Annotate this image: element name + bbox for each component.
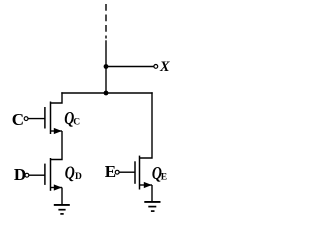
gate bar QC	[44, 107, 46, 129]
svg-text:C: C	[73, 118, 80, 128]
source arrow QE	[144, 182, 152, 188]
svg-text:E: E	[161, 173, 167, 183]
wire: solid trunk from dashed stub down to branch junction	[105, 40, 107, 93]
svg-text:C: C	[12, 110, 24, 129]
gate bar QD	[44, 164, 46, 185]
ground below QD	[54, 205, 70, 214]
wire: horizontal drain bus connecting both branches	[61, 92, 152, 94]
source stub QE with arrow	[140, 184, 153, 186]
wire: gate lead of QC	[28, 118, 45, 120]
input terminal circle E	[115, 170, 119, 174]
channel bar QE	[139, 156, 141, 190]
wire: QD source down to ground	[61, 188, 63, 205]
wire: QC source down to QD drain	[51, 131, 63, 160]
source arrow QC	[54, 128, 62, 134]
junction dot: drain bus junction	[104, 91, 109, 96]
transistor QD	[45, 158, 62, 191]
label QD	[65, 163, 82, 183]
ground below QE	[144, 202, 160, 211]
wire: dashed supply stub to load above	[105, 4, 107, 39]
svg-text:E: E	[105, 162, 116, 181]
wire: QE source down to ground	[151, 185, 153, 202]
svg-text:X: X	[159, 59, 170, 75]
wire: right branch drop from bus to QE drain	[140, 92, 153, 158]
wire: left branch drop from bus to QC drain	[51, 92, 63, 103]
input terminal circle C	[24, 117, 28, 121]
source stub QD with arrow	[51, 187, 63, 189]
input terminal circle D	[25, 173, 29, 177]
source stub QC with arrow	[51, 130, 63, 132]
svg-text:Q: Q	[65, 163, 75, 183]
source arrow QD	[54, 184, 62, 190]
node X junction dot on trunk	[104, 64, 109, 69]
node X open terminal circle	[154, 65, 158, 69]
svg-text:D: D	[75, 172, 82, 182]
channel bar QC	[50, 102, 52, 135]
wire: output lead from trunk to terminal X	[106, 66, 154, 68]
gate bar QE	[134, 161, 136, 184]
label QE	[152, 163, 167, 183]
transistor QC	[45, 102, 62, 135]
wire: gate lead of QE	[119, 171, 135, 173]
channel bar QD	[50, 158, 52, 191]
transistor QE	[135, 156, 152, 190]
wire: gate lead of QD	[29, 174, 45, 176]
svg-text:D: D	[14, 165, 26, 184]
label QC	[64, 108, 80, 128]
